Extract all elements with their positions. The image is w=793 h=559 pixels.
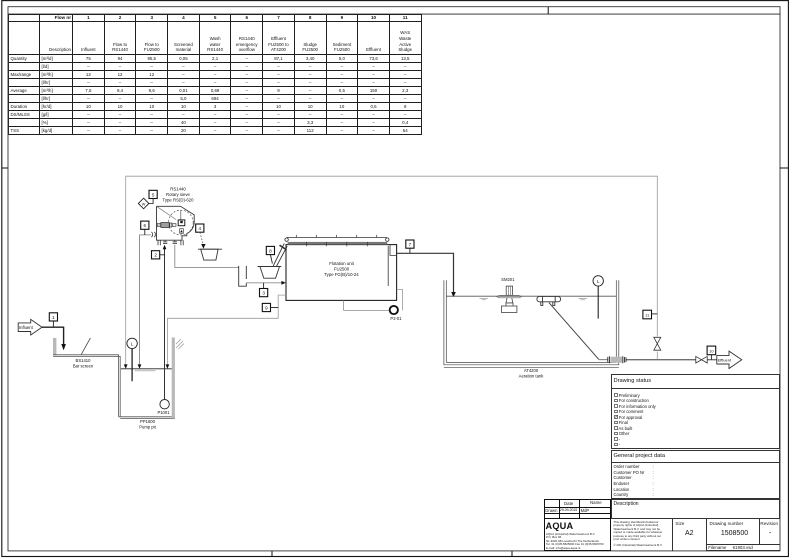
flotation scraper conveyor (285, 235, 389, 246)
tag 8 (266, 246, 274, 263)
screenings container (hopper 1) (198, 249, 222, 260)
svg-text:10: 10 (709, 348, 714, 353)
dashed drop line from tag 4 (200, 232, 203, 244)
effluent valve (696, 356, 707, 363)
fold mark top (547, 7, 549, 14)
sieve drain pipe to flotation (175, 245, 239, 268)
wash water line from sieve to pit (140, 235, 151, 365)
svg-text:RS1440: RS1440 (170, 186, 186, 191)
header separator line (8, 13, 780, 15)
pipe flotation to aeration tank (flow 7) (397, 253, 456, 297)
svg-text:Type FG(B)/10-24: Type FG(B)/10-24 (324, 272, 359, 277)
skimmings hopper 2 (258, 267, 282, 279)
tag 3 (260, 283, 268, 297)
svg-text:SM201: SM201 (501, 277, 515, 282)
influent pipe to bar screen (42, 327, 66, 350)
tag 7 (406, 240, 414, 253)
tag 10 (707, 346, 716, 360)
fold mark bottom left (271, 551, 273, 557)
floating decanter (537, 296, 561, 305)
size cell (675, 521, 684, 526)
svg-text:Effluent: Effluent (718, 358, 732, 363)
tag 9 (262, 303, 278, 311)
mixer SM201 (497, 286, 522, 312)
description box (611, 499, 780, 519)
filename row (706, 544, 780, 551)
pit water level (121, 368, 172, 370)
pump P2-01 (390, 306, 398, 314)
AQUA logo block (544, 519, 611, 551)
influent block arrow (18, 319, 42, 335)
sieve drive motor (157, 220, 185, 233)
svg-text:FU2500: FU2500 (334, 266, 350, 271)
pipe break symbol (152, 232, 156, 237)
flotation bottom pipe to pump P2-01 (344, 300, 389, 310)
svg-text:8: 8 (269, 248, 272, 253)
general project data labels (614, 464, 645, 498)
bar screen channel floor (53, 355, 120, 417)
disclaimer cell (611, 519, 673, 551)
svg-text:PP1600: PP1600 (140, 419, 156, 424)
svg-text:1: 1 (52, 315, 55, 320)
svg-text:AT4200: AT4200 (524, 368, 539, 373)
svg-text:L: L (597, 279, 600, 284)
tag 5 (149, 190, 157, 204)
aeration tank water level (446, 295, 616, 297)
svg-text:W: W (142, 202, 146, 206)
tag 11 (643, 310, 657, 319)
svg-text:L: L (131, 341, 134, 346)
svg-text:P1001: P1001 (157, 410, 170, 415)
WAS valve (654, 337, 661, 350)
svg-text:9: 9 (265, 305, 268, 310)
tag 6 (141, 221, 149, 235)
effluent pipe (627, 359, 697, 361)
flotation sediment drain (flow 9) to pump pit (167, 295, 286, 364)
level indicator aeration tank (593, 276, 603, 319)
svg-text:Aeration tank: Aeration tank (519, 374, 545, 379)
pump P1001 (160, 400, 169, 409)
revision cell (760, 521, 778, 526)
svg-text:Rotary sieve: Rotary sieve (166, 192, 190, 197)
date name table (544, 499, 611, 519)
sieve legs and nozzles (158, 240, 183, 245)
sieve drum (dashed circle) (168, 210, 193, 235)
svg-text:4: 4 (199, 226, 202, 231)
svg-text:Type RS(D)-620: Type RS(D)-620 (162, 198, 194, 203)
rotary sieve RS1440 body (157, 206, 195, 240)
flotation inlet pipe (246, 282, 283, 284)
svg-text:Bar screen: Bar screen (73, 363, 94, 368)
svg-text:P2-01: P2-01 (390, 316, 402, 321)
svg-text:Influent: Influent (19, 325, 34, 330)
bar screen channel wall (concrete) (53, 338, 56, 355)
tag 4 (196, 224, 204, 232)
WAS return line (flow 11) long gray run (126, 176, 658, 364)
drawing number cell (710, 521, 744, 526)
W diamond sample point (138, 198, 153, 209)
discharge coupling at tank outlet (599, 356, 626, 363)
pump pit PP1600 walls (119, 417, 175, 419)
svg-text:5: 5 (152, 192, 155, 197)
P2-01 suction from right wall (397, 289, 403, 310)
tag 1 (49, 313, 57, 327)
svg-text:6: 6 (144, 223, 147, 228)
flotation unit FU2500 tank (286, 245, 397, 301)
flow data table (8, 14, 422, 135)
svg-text:3: 3 (262, 291, 265, 296)
flotation weir + outlet trough (388, 245, 396, 286)
drawing status checkboxes (614, 393, 656, 448)
ground hatch at pit wall (176, 339, 184, 349)
decanter flexible hose (549, 302, 599, 359)
fold mark right (780, 167, 788, 169)
svg-text:2: 2 (154, 253, 157, 258)
svg-text:Flotation unit: Flotation unit (329, 261, 354, 266)
svg-text:7: 7 (409, 242, 412, 247)
bar screen BS1410 diagonal (81, 338, 90, 355)
effluent block arrow (717, 351, 742, 368)
flotation inlet standpipe (239, 266, 247, 286)
fold mark left (2, 167, 8, 169)
aeration tank AT4200 walls (444, 280, 619, 367)
svg-text:Pump pit: Pump pit (139, 425, 156, 430)
level indicator pit (127, 338, 137, 381)
general project data box (611, 450, 780, 500)
flotation skimmings chute (273, 243, 287, 266)
tag 2 (152, 251, 165, 259)
title block: drawing status box (611, 374, 780, 449)
svg-text:BS1410: BS1410 (76, 358, 92, 363)
riser pipe P1001 to sieve (163, 245, 167, 400)
fold mark bottom right (511, 551, 513, 557)
pump pit concrete right wall (172, 338, 175, 419)
